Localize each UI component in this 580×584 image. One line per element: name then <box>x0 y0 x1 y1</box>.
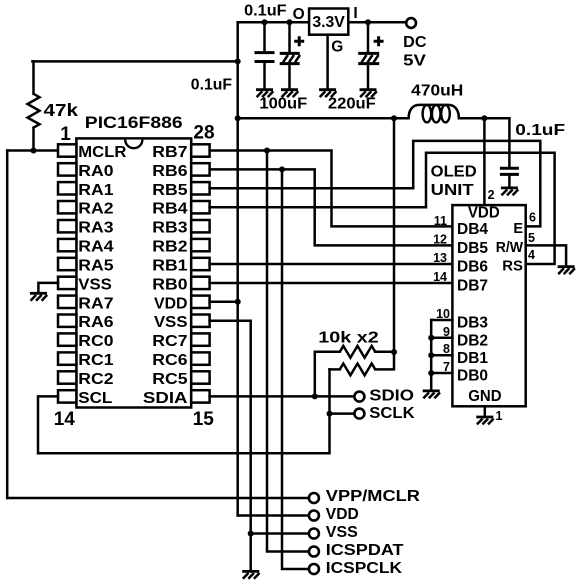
wire RB4 to OLED RS <box>210 153 555 264</box>
wire MCLR left vertical to VPP <box>6 151 9 499</box>
ground regulator G <box>319 90 336 97</box>
svg-text:RA7: RA7 <box>78 295 113 312</box>
svg-text:O: O <box>293 6 305 23</box>
svg-text:DB1: DB1 <box>457 350 488 367</box>
svg-text:DB7: DB7 <box>457 278 488 295</box>
svg-text:0.1uF: 0.1uF <box>244 3 287 20</box>
wire SDIA to SDIO <box>210 395 355 398</box>
junction C1 top <box>262 19 268 25</box>
svg-text:VSS: VSS <box>326 524 358 541</box>
junction inductor left pull-up feed <box>391 115 397 121</box>
ground R/W <box>558 267 575 274</box>
svg-text:RB4: RB4 <box>152 201 187 218</box>
svg-text:DB2: DB2 <box>457 332 488 349</box>
svg-text:SDIA: SDIA <box>143 390 188 407</box>
wire SCL route to SCLK <box>38 369 330 453</box>
svg-text:0.1uF: 0.1uF <box>515 122 565 139</box>
svg-text:28: 28 <box>193 122 214 143</box>
svg-text:RA0: RA0 <box>78 163 113 180</box>
wire DB3-DB0 bus to ground <box>430 320 433 390</box>
svg-text:DC: DC <box>403 34 427 51</box>
svg-text:47k: 47k <box>44 100 79 120</box>
ground C1 <box>256 90 273 97</box>
wire DB2 stub <box>431 337 452 340</box>
wire DB0 stub <box>431 372 452 375</box>
wire ICSPCLK vertical <box>282 169 308 569</box>
resistor R3 10k SCLK pull-up <box>330 352 395 375</box>
svg-text:1: 1 <box>496 409 503 423</box>
PIC left pin boxes <box>58 144 76 402</box>
svg-text:RC5: RC5 <box>152 371 187 388</box>
svg-text:RB5: RB5 <box>152 182 187 199</box>
svg-text:11: 11 <box>434 214 447 228</box>
terminal VSS circle <box>309 529 319 539</box>
junction R3 SCLK wire <box>327 411 333 417</box>
svg-text:I: I <box>353 5 357 22</box>
svg-text:RS: RS <box>502 259 523 275</box>
junction inductor right OLED VDD <box>481 115 487 121</box>
plus sign C2 <box>294 36 304 46</box>
junction VSS terminal <box>248 531 254 537</box>
IC U3 OLED unit body <box>452 205 525 406</box>
svg-text:470uH: 470uH <box>411 83 463 100</box>
wire RB6 to DB5 <box>210 169 453 245</box>
capacitor C3 220uF electrolytic <box>358 22 379 88</box>
svg-text:SCLK: SCLK <box>369 405 415 422</box>
svg-text:15: 15 <box>193 409 215 430</box>
wire VPP MCLR terminal <box>7 497 308 500</box>
ground C2 <box>281 90 298 97</box>
svg-text:VSS: VSS <box>78 276 112 293</box>
wire SCLK stub <box>330 412 355 415</box>
svg-text:RB1: RB1 <box>152 258 187 275</box>
junction pull-up feed <box>391 349 397 355</box>
svg-text:DB5: DB5 <box>457 240 488 257</box>
ground DB bus <box>423 391 440 398</box>
wire 3.3V rail to inductor <box>238 117 404 120</box>
svg-text:6: 6 <box>529 211 536 225</box>
svg-text:1: 1 <box>60 124 71 145</box>
wire RB5 to OLED E <box>210 141 541 227</box>
svg-text:RA6: RA6 <box>78 314 113 331</box>
terminal ICSPCLK circle <box>309 564 319 574</box>
svg-text:PIC16F886: PIC16F886 <box>85 113 183 132</box>
junction C2 top <box>287 19 293 25</box>
capacitor C1 0.1uF <box>255 22 275 88</box>
svg-text:ICSPCLK: ICSPCLK <box>326 560 403 577</box>
svg-text:RA3: RA3 <box>78 220 113 237</box>
IC U1 PIC16F886 body <box>76 138 191 407</box>
terminal VPP/MCLR circle <box>309 493 319 503</box>
svg-text:DB0: DB0 <box>457 368 488 385</box>
svg-text:RC7: RC7 <box>152 333 187 350</box>
junction RB7 ICSPDAT <box>264 148 270 154</box>
svg-text:4: 4 <box>528 248 535 262</box>
ground VSS pin8 <box>30 293 47 300</box>
wire OLED VDD feed <box>483 118 486 205</box>
wire VDD terminal <box>238 514 308 517</box>
wire pull-up feed vertical <box>393 118 396 352</box>
svg-text:VPP/MCLR: VPP/MCLR <box>326 488 421 505</box>
svg-text:DB6: DB6 <box>457 259 488 276</box>
capacitor C4 0.1uF OLED bypass <box>500 118 519 187</box>
ground C4 <box>501 188 518 195</box>
wire top-left rail to 47k <box>32 60 237 63</box>
terminal ICSPDAT circle <box>309 547 319 557</box>
svg-text:RA4: RA4 <box>78 239 113 256</box>
junction DB2 <box>428 335 434 341</box>
svg-text:14: 14 <box>54 409 76 430</box>
svg-text:RC1: RC1 <box>78 352 113 369</box>
regulator U2 3.3V box <box>309 9 348 35</box>
svg-text:RC0: RC0 <box>78 333 113 350</box>
junction 3.3V top-left rail <box>235 58 241 64</box>
terminal VDD circle <box>309 511 319 521</box>
svg-text:RB0: RB0 <box>152 276 187 293</box>
svg-text:3.3V: 3.3V <box>312 14 345 31</box>
ground C3 <box>360 90 377 97</box>
svg-text:RC2: RC2 <box>78 371 113 388</box>
resistor R1 47k <box>28 61 40 150</box>
junction RB6 ICSPCLK <box>279 166 285 172</box>
inductor L1 470uH <box>404 105 510 123</box>
svg-text:VSS: VSS <box>154 314 188 331</box>
wire VSS terminal <box>251 532 308 535</box>
regulator G pin lead <box>326 35 329 89</box>
svg-text:RB6: RB6 <box>152 163 187 180</box>
junction 3.3V rail left <box>235 115 241 121</box>
terminal SCLK circle <box>354 409 364 419</box>
svg-text:OLED: OLED <box>431 163 477 180</box>
junction R2 SDIO wire <box>312 393 318 399</box>
svg-text:RA2: RA2 <box>78 201 113 218</box>
svg-text:13: 13 <box>433 251 447 265</box>
wire RB0 to DB7 <box>210 282 453 285</box>
svg-text:E: E <box>513 221 523 237</box>
svg-text:10k x2: 10k x2 <box>318 329 379 346</box>
svg-text:14: 14 <box>433 270 447 284</box>
junction C3 top <box>365 19 371 25</box>
svg-text:RB7: RB7 <box>152 144 187 161</box>
capacitor C2 100uF electrolytic <box>280 22 300 88</box>
svg-text:SDIO: SDIO <box>369 388 414 405</box>
wire ICSPDAT vertical <box>267 151 308 552</box>
wire MCLR to pin 1 <box>7 149 58 152</box>
wire top 5V rail right of regulator to DC terminal <box>348 21 406 24</box>
terminal SDIO circle <box>354 392 364 402</box>
svg-text:SCL: SCL <box>78 390 112 407</box>
wire DB3 stub <box>431 319 452 322</box>
svg-text:12: 12 <box>433 233 447 247</box>
svg-text:DB3: DB3 <box>457 315 488 332</box>
svg-text:MCLR: MCLR <box>78 144 127 161</box>
wire RB7 to DB4 <box>210 151 453 227</box>
svg-text:2: 2 <box>488 188 495 202</box>
svg-text:RB2: RB2 <box>152 239 187 256</box>
svg-text:5V: 5V <box>403 53 426 70</box>
svg-text:G: G <box>331 39 343 56</box>
plus sign C3 <box>374 36 384 46</box>
svg-text:100uF: 100uF <box>259 96 307 113</box>
junction MCLR 47k <box>31 148 37 154</box>
junction VDD pin20 <box>235 299 241 305</box>
resistor R2 10k SDIO pull-up <box>315 346 394 397</box>
terminal DC input circle <box>406 18 416 28</box>
svg-text:RA1: RA1 <box>78 182 113 199</box>
wire VSS pin8 stub <box>38 283 58 292</box>
wire 3.3V main vertical <box>236 22 239 515</box>
svg-text:R/W: R/W <box>496 240 524 256</box>
PIC right pin boxes <box>191 144 209 402</box>
svg-text:GND: GND <box>468 388 501 405</box>
wire VSS pin19 down to terminal and ground <box>210 321 251 571</box>
svg-text:VDD: VDD <box>154 295 188 312</box>
svg-text:UNIT: UNIT <box>431 182 475 199</box>
wire VDD pin20 stub <box>210 301 238 304</box>
svg-text:DB4: DB4 <box>457 221 488 238</box>
svg-text:220uF: 220uF <box>328 96 376 113</box>
svg-text:RC6: RC6 <box>152 352 187 369</box>
svg-text:RB3: RB3 <box>152 220 187 237</box>
wire DB1 stub <box>431 354 452 357</box>
PIC right pin names <box>143 144 188 407</box>
wire R/W to ground <box>526 245 566 265</box>
IC U1 notch <box>125 140 142 149</box>
svg-text:RA5: RA5 <box>78 258 113 275</box>
svg-text:ICSPDAT: ICSPDAT <box>326 542 404 559</box>
junction DB1 <box>428 352 434 358</box>
PIC left pin names <box>78 144 127 407</box>
wire top 5V rail left of regulator <box>238 21 309 24</box>
junction DB0 <box>428 370 434 376</box>
ground OLED GND <box>476 417 493 424</box>
wire OLED GND pin1 <box>484 406 487 416</box>
ground VSS net bottom <box>242 571 259 578</box>
wire RB1 to DB6 <box>210 263 453 266</box>
svg-text:5: 5 <box>528 231 535 245</box>
svg-text:0.1uF: 0.1uF <box>191 76 232 93</box>
svg-text:VDD: VDD <box>326 506 359 523</box>
svg-text:VDD: VDD <box>468 205 500 222</box>
